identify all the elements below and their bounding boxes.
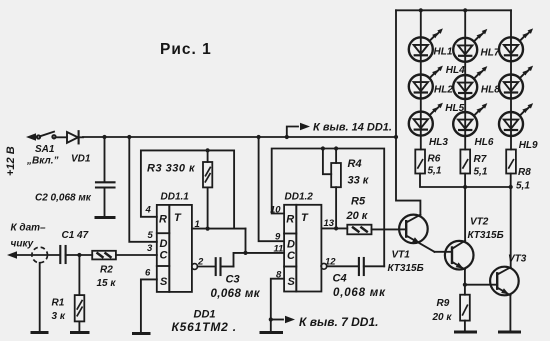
svg-text:0,068 мк: 0,068 мк bbox=[333, 287, 386, 299]
diode VD1 bbox=[67, 131, 83, 143]
svg-text:5,1: 5,1 bbox=[516, 181, 530, 192]
+12V input arrow bbox=[26, 133, 37, 141]
wire VT2 emitter to VT3 base bbox=[465, 284, 497, 286]
svg-text:DD1: DD1 bbox=[194, 309, 216, 321]
svg-text:КТ315Б: КТ315Б bbox=[388, 263, 424, 274]
op-amp? no: flip-flop DD1.1 body bbox=[157, 205, 192, 292]
svg-text:10: 10 bbox=[270, 205, 281, 216]
svg-text:33 к: 33 к bbox=[348, 175, 370, 187]
svg-text:К выв. 7 DD1.: К выв. 7 DD1. bbox=[299, 315, 378, 329]
svg-text:HL4: HL4 bbox=[446, 65, 465, 76]
wire R7 to VT2 collector bbox=[464, 174, 466, 241]
resistor R5 bbox=[347, 225, 371, 235]
LED HL9 bbox=[499, 103, 533, 136]
svg-text:SA1: SA1 bbox=[35, 144, 55, 155]
svg-text:C: C bbox=[160, 250, 169, 262]
node bus col2 bbox=[463, 8, 467, 12]
wire R1 branch bbox=[78, 255, 80, 295]
ground under terminal bbox=[31, 331, 49, 334]
wire VT1 emitter to VT2 base bbox=[435, 251, 453, 253]
svg-text:11: 11 bbox=[274, 244, 284, 255]
svg-text:VD1: VD1 bbox=[71, 154, 91, 165]
node stub top bbox=[321, 146, 325, 150]
DD1.2 section letters bbox=[286, 212, 309, 288]
svg-text:5,1: 5,1 bbox=[428, 166, 442, 177]
node bus2 col3 bbox=[509, 185, 513, 189]
resistor R2 bbox=[92, 251, 157, 260]
wire LED column 2 bbox=[464, 10, 466, 149]
ground under DD1.2 S bbox=[260, 331, 284, 334]
svg-text:C: C bbox=[287, 250, 296, 262]
ground under R1 bbox=[70, 331, 90, 334]
svg-text:R2: R2 bbox=[100, 265, 113, 276]
ground under R9 bbox=[454, 331, 477, 334]
svg-text:DD1.1: DD1.1 bbox=[161, 192, 190, 203]
LED HL7 bbox=[499, 28, 533, 61]
switch SA1 bbox=[37, 132, 67, 139]
svg-text:HL8: HL8 bbox=[481, 85, 500, 96]
svg-text:VT3: VT3 bbox=[508, 254, 527, 265]
node bus2 col2 bbox=[463, 185, 467, 189]
wire pin2 to C3 bbox=[198, 266, 216, 268]
svg-text:HL3: HL3 bbox=[429, 137, 448, 148]
svg-text:D: D bbox=[287, 239, 295, 251]
svg-text:5: 5 bbox=[148, 230, 154, 241]
svg-text:Рис. 1: Рис. 1 bbox=[160, 41, 212, 58]
svg-text:HL9: HL9 bbox=[519, 140, 538, 151]
svg-text:С1 47: С1 47 bbox=[62, 230, 89, 241]
svg-text:3: 3 bbox=[147, 243, 153, 254]
node R3 bottom on Q wire bbox=[206, 227, 210, 231]
svg-text:6: 6 bbox=[145, 268, 151, 279]
svg-text:HL5: HL5 bbox=[445, 103, 464, 114]
wire rail to D input DD1.1 bbox=[129, 137, 157, 242]
pin 2 inversion bubble bbox=[192, 264, 198, 270]
wire LED top bus bbox=[396, 9, 511, 11]
svg-text:VT1: VT1 bbox=[392, 250, 411, 261]
svg-text:9: 9 bbox=[275, 232, 281, 243]
svg-text:HL2: HL2 bbox=[434, 85, 453, 96]
svg-text:R: R bbox=[286, 214, 294, 226]
wire pin6 S to ground bbox=[141, 279, 157, 332]
wire bus left down to rail and VT1 bbox=[396, 10, 420, 214]
capacitor C3 bbox=[216, 253, 246, 275]
svg-text:HL6: HL6 bbox=[475, 137, 494, 148]
svg-text:HL7: HL7 bbox=[481, 48, 500, 59]
svg-text:R4: R4 bbox=[348, 158, 362, 170]
node R4 top bbox=[334, 146, 338, 150]
svg-text:VT2: VT2 bbox=[470, 217, 489, 228]
svg-text:S: S bbox=[288, 276, 296, 288]
svg-text:С2 0,068 мк: С2 0,068 мк bbox=[35, 193, 92, 204]
node R4 bottom bbox=[334, 226, 338, 230]
wire stub to R4 side bbox=[323, 149, 331, 175]
LED HL4 bbox=[453, 29, 487, 62]
node VT2 emitter bbox=[463, 283, 467, 287]
svg-text:3 к: 3 к bbox=[52, 311, 66, 322]
svg-text:S: S bbox=[160, 276, 168, 288]
svg-text:К дат–: К дат– bbox=[11, 223, 47, 234]
wire pin14 stub bbox=[287, 123, 310, 137]
transistor VT2 bbox=[445, 241, 474, 285]
node rail-LED bbox=[394, 135, 398, 139]
resistor R7 bbox=[460, 150, 470, 174]
svg-text:20 к: 20 к bbox=[346, 210, 369, 222]
sensor terminal circle bbox=[32, 247, 48, 263]
wire +12V rail bbox=[83, 136, 396, 138]
transistor VT3 bbox=[490, 267, 519, 331]
wire LED column 3 bbox=[510, 10, 512, 149]
wire rail to D input DD1.2 bbox=[259, 137, 285, 241]
svg-text:4: 4 bbox=[145, 205, 152, 216]
wire R6 bottom bus bbox=[420, 174, 511, 188]
wire Q to C input DD1.2 bbox=[246, 229, 285, 253]
svg-text:К561ТМ2 .: К561ТМ2 . bbox=[172, 320, 237, 334]
capacitor C4 bbox=[359, 258, 384, 275]
svg-text:R8: R8 bbox=[518, 167, 531, 178]
wire pin8 S to ground bbox=[271, 279, 284, 331]
resistor R1 bbox=[75, 295, 85, 331]
node rail-pin14 bbox=[285, 135, 289, 139]
svg-text:R: R bbox=[159, 214, 167, 226]
resistor R4 bbox=[331, 149, 341, 229]
node C1-R1-R2 bbox=[77, 253, 81, 257]
wire DD1.1 Q pin1 bbox=[192, 228, 246, 230]
DD1.1 section letters bbox=[159, 212, 182, 288]
svg-text:R5: R5 bbox=[351, 196, 366, 208]
flip-flop DD1.2 body bbox=[284, 205, 321, 292]
LED HL1 bbox=[409, 28, 443, 61]
svg-text:13: 13 bbox=[324, 218, 335, 229]
capacitor C1 bbox=[60, 246, 92, 263]
capacitor C2 bbox=[96, 137, 115, 217]
wire pin13 Q output bbox=[321, 227, 347, 229]
LED HL2 bbox=[409, 66, 443, 99]
LED HL3 bbox=[409, 103, 443, 136]
svg-text:+12 В: +12 В bbox=[5, 146, 17, 176]
node rail-D1 bbox=[127, 135, 131, 139]
sensor input arrow bbox=[7, 251, 60, 259]
ground under DD1.1 S bbox=[132, 332, 151, 335]
LED HL6 bbox=[453, 103, 487, 136]
svg-text:R6: R6 bbox=[428, 154, 441, 165]
ground under VT3 bbox=[498, 331, 521, 334]
svg-text:20 к: 20 к bbox=[432, 312, 453, 323]
node bus col1 bbox=[419, 8, 423, 12]
svg-text:5,1: 5,1 bbox=[474, 167, 488, 178]
svg-text:С3: С3 bbox=[226, 274, 240, 286]
svg-text:HL1: HL1 bbox=[434, 47, 453, 58]
svg-text:0,068 мк: 0,068 мк bbox=[211, 288, 261, 300]
wire R4/C4 loop to R input DD1.2 bbox=[272, 149, 385, 267]
svg-text:D: D bbox=[160, 238, 168, 250]
svg-text:чику: чику bbox=[11, 239, 34, 250]
node C3 join bbox=[243, 251, 247, 255]
svg-text:R3 330 к: R3 330 к bbox=[147, 163, 196, 175]
svg-text:15 к: 15 к bbox=[97, 278, 117, 289]
svg-text:DD1.2: DD1.2 bbox=[285, 192, 314, 203]
node rail-C2 bbox=[102, 135, 106, 139]
svg-text:R1: R1 bbox=[52, 298, 65, 309]
node pin7 branch bbox=[269, 317, 273, 321]
svg-text:С4: С4 bbox=[333, 273, 347, 285]
wire pin12 to C4 bbox=[327, 265, 358, 267]
wire R5 to VT1 base bbox=[372, 228, 400, 230]
wire R9 branch bbox=[464, 285, 466, 295]
svg-text:R7: R7 bbox=[474, 154, 487, 165]
wire R3 loop (pin4 R to Q) bbox=[141, 150, 234, 228]
resistor R8 bbox=[506, 150, 516, 174]
resistor R9 bbox=[460, 295, 470, 331]
svg-text:R9: R9 bbox=[437, 298, 450, 309]
resistor R3 bbox=[203, 150, 212, 228]
transistor VT1 bbox=[399, 215, 434, 252]
LED HL8 bbox=[499, 66, 533, 99]
pin 12 inversion bubble bbox=[321, 263, 327, 269]
ground under C2 bbox=[95, 216, 116, 219]
node R3 top bbox=[206, 148, 210, 152]
К датчику label bbox=[11, 223, 47, 250]
wire pin7 stub bbox=[271, 316, 295, 324]
svg-text:К выв. 14 DD1.: К выв. 14 DD1. bbox=[313, 122, 392, 134]
wire R8 to VT3 collector bbox=[510, 174, 512, 268]
node rail-D2 bbox=[257, 135, 261, 139]
LED HL5 bbox=[453, 66, 487, 99]
svg-text:КТ315Б: КТ315Б bbox=[468, 230, 504, 241]
svg-text:„Вкл.”: „Вкл.” bbox=[26, 156, 59, 167]
wire terminal to ground bbox=[39, 263, 41, 332]
resistor R6 bbox=[415, 150, 425, 174]
wire LED column 1 bbox=[420, 10, 422, 149]
